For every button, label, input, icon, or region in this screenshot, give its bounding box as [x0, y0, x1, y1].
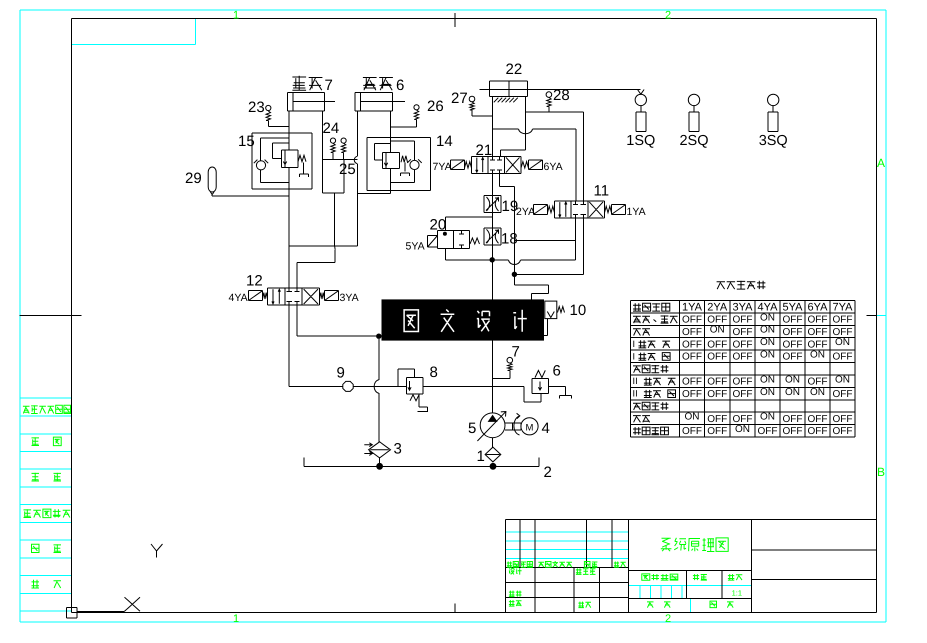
svg-text:OFF: OFF: [682, 315, 702, 326]
svg-text:ON: ON: [785, 387, 800, 398]
svg-text:2YA: 2YA: [516, 206, 535, 218]
svg-text:5YA: 5YA: [783, 302, 804, 314]
svg-text:OFF: OFF: [707, 389, 727, 400]
svg-text:OFF: OFF: [833, 426, 853, 437]
svg-text:ON: ON: [760, 412, 775, 423]
svg-text:2: 2: [544, 464, 552, 481]
svg-text:6: 6: [396, 77, 404, 94]
svg-text:1YA: 1YA: [627, 206, 646, 218]
svg-text:ON: ON: [760, 325, 775, 336]
svg-text:ON: ON: [760, 387, 775, 398]
svg-text:OFF: OFF: [682, 389, 702, 400]
svg-text:10: 10: [570, 302, 587, 319]
svg-text:3YA: 3YA: [340, 292, 359, 304]
svg-text:29: 29: [185, 170, 202, 187]
svg-text:OFF: OFF: [682, 327, 702, 338]
svg-text:5: 5: [468, 420, 476, 437]
svg-text:OFF: OFF: [833, 352, 853, 363]
svg-text:1: 1: [477, 448, 485, 465]
svg-text:ON: ON: [785, 374, 800, 385]
svg-text:2SQ: 2SQ: [679, 133, 708, 149]
svg-text:OFF: OFF: [808, 315, 828, 326]
svg-text:ON: ON: [760, 350, 775, 361]
svg-text:OFF: OFF: [808, 426, 828, 437]
svg-text:9: 9: [337, 365, 345, 382]
svg-text:I: I: [633, 339, 636, 349]
svg-text:OFF: OFF: [733, 327, 753, 338]
svg-text:ON: ON: [810, 350, 825, 361]
svg-text:OFF: OFF: [733, 339, 753, 350]
svg-text:1: 1: [233, 613, 239, 625]
svg-text:B: B: [877, 465, 885, 479]
svg-text:ON: ON: [760, 374, 775, 385]
svg-text:6: 6: [553, 363, 561, 380]
svg-text:OFF: OFF: [783, 352, 803, 363]
svg-text:ON: ON: [760, 337, 775, 348]
svg-text:OFF: OFF: [707, 339, 727, 350]
svg-text:21: 21: [476, 142, 493, 159]
svg-text:OFF: OFF: [682, 339, 702, 350]
svg-text:OFF: OFF: [733, 352, 753, 363]
svg-text:OFF: OFF: [808, 327, 828, 338]
svg-text:7: 7: [512, 344, 520, 361]
svg-text:OFF: OFF: [707, 377, 727, 388]
svg-text:1YA: 1YA: [682, 302, 703, 314]
svg-text:26: 26: [427, 98, 444, 115]
svg-text:3YA: 3YA: [733, 302, 754, 314]
svg-text:8: 8: [430, 364, 438, 381]
svg-text:5YA: 5YA: [406, 241, 425, 253]
svg-text:ON: ON: [810, 387, 825, 398]
svg-text:OFF: OFF: [783, 339, 803, 350]
svg-text:OFF: OFF: [808, 414, 828, 425]
svg-text:27: 27: [451, 90, 468, 107]
svg-text:6YA: 6YA: [808, 302, 829, 314]
svg-text:2YA: 2YA: [707, 302, 728, 314]
svg-text:OFF: OFF: [783, 327, 803, 338]
svg-text:4: 4: [542, 420, 550, 437]
svg-text:1SQ: 1SQ: [626, 133, 655, 149]
svg-text:ON: ON: [835, 337, 850, 348]
svg-text:OFF: OFF: [733, 389, 753, 400]
svg-text:23: 23: [248, 99, 265, 116]
svg-text:14: 14: [436, 133, 453, 150]
svg-text:OFF: OFF: [707, 414, 727, 425]
svg-text:A: A: [877, 156, 885, 170]
svg-text:M: M: [526, 423, 534, 434]
svg-text:OFF: OFF: [682, 352, 702, 363]
svg-text:7YA: 7YA: [433, 161, 452, 173]
svg-text:18: 18: [501, 231, 518, 248]
svg-text:ON: ON: [710, 325, 725, 336]
svg-text:OFF: OFF: [783, 414, 803, 425]
svg-text:11: 11: [594, 183, 610, 200]
svg-text:24: 24: [323, 120, 340, 137]
svg-text:OFF: OFF: [682, 377, 702, 388]
svg-text:2: 2: [665, 613, 671, 625]
svg-text:I: I: [633, 351, 636, 361]
svg-text:ON: ON: [685, 412, 700, 423]
svg-text:OFF: OFF: [783, 426, 803, 437]
svg-text:3: 3: [394, 441, 402, 458]
svg-text:3SQ: 3SQ: [759, 133, 788, 149]
svg-text:OFF: OFF: [758, 426, 778, 437]
svg-text:OFF: OFF: [707, 426, 727, 437]
svg-text:25: 25: [339, 161, 356, 178]
svg-text:7YA: 7YA: [833, 302, 854, 314]
svg-text:II: II: [633, 389, 638, 399]
svg-text:1: 1: [233, 9, 239, 21]
svg-text:OFF: OFF: [733, 315, 753, 326]
svg-text:12: 12: [246, 273, 263, 290]
svg-text:OFF: OFF: [833, 389, 853, 400]
svg-text:OFF: OFF: [707, 352, 727, 363]
svg-text:7: 7: [325, 77, 333, 94]
svg-text:OFF: OFF: [833, 315, 853, 326]
svg-text:4YA: 4YA: [229, 292, 248, 304]
svg-text:OFF: OFF: [833, 414, 853, 425]
svg-text:1:1: 1:1: [732, 589, 742, 598]
svg-text:OFF: OFF: [733, 377, 753, 388]
svg-text:OFF: OFF: [682, 426, 702, 437]
svg-text:28: 28: [553, 87, 570, 104]
svg-text:ON: ON: [835, 374, 850, 385]
svg-text:ON: ON: [735, 424, 750, 435]
svg-text:2: 2: [665, 9, 671, 21]
svg-text:6YA: 6YA: [544, 161, 563, 173]
svg-text:OFF: OFF: [783, 315, 803, 326]
svg-text:ON: ON: [760, 312, 775, 323]
svg-text:22: 22: [506, 61, 523, 78]
svg-text:20: 20: [430, 217, 447, 234]
svg-text:15: 15: [238, 133, 255, 150]
svg-text:II: II: [633, 376, 638, 386]
